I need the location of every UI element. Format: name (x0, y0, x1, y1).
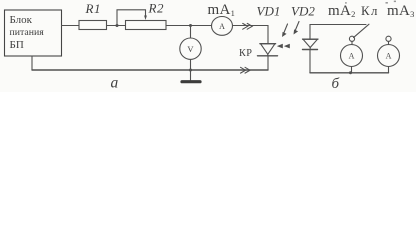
wire return bottom of circuit a (32, 69, 268, 71)
voltmeter V (180, 26, 201, 71)
svg-text:питания: питания (10, 27, 45, 38)
svg-text:VD2: VD2 (291, 3, 315, 18)
wire mA2 bottom lead (351, 67, 353, 73)
node junction R1-R2 tap (116, 24, 119, 27)
svg-text:б: б (332, 76, 340, 92)
switch contact mA3 (386, 36, 391, 41)
svg-text:mA2: mA2 (328, 3, 356, 19)
wire bottom of circuit b (310, 72, 389, 74)
ammeter mA1 (212, 17, 233, 36)
light arrows horizontal into VD1 (277, 44, 290, 49)
wire R2 to mA1 (166, 25, 212, 27)
switch Кл lever (354, 24, 370, 37)
wire VD1 bottom lead (267, 56, 269, 70)
wire БП bottom lead (31, 56, 33, 70)
svg-text:R1: R1 (85, 1, 102, 16)
connector chevrons top (243, 23, 253, 29)
wire VD2 top rail (310, 25, 366, 40)
LED VD1 (258, 44, 278, 56)
svg-text:КР: КР (239, 48, 252, 59)
switch contact mA2 (349, 36, 354, 41)
svg-text:A: A (219, 22, 225, 31)
node junction mA2 bottom (349, 71, 352, 74)
power supply БП (5, 10, 62, 56)
wire contact to mA2 (351, 41, 353, 44)
wire mA1 to VD1 corner (233, 26, 269, 44)
wire contact to mA3 (388, 41, 390, 44)
resistor R2 (126, 21, 167, 30)
scan specks (345, 1, 396, 4)
wire mA3 bottom lead (388, 67, 390, 73)
wire rheostat tap (117, 10, 146, 26)
svg-text:БП: БП (10, 39, 24, 51)
svg-text:A: A (386, 52, 392, 61)
light arrows diagonal (282, 22, 299, 38)
node junction voltmeter top (189, 24, 192, 27)
svg-text:Блок: Блок (10, 14, 33, 26)
photodiode VD2 (303, 39, 318, 49)
svg-text:A: A (349, 52, 355, 61)
connector chevrons bottom (241, 67, 251, 73)
ammeter mA3 (378, 45, 400, 67)
svg-text:Кл: Кл (361, 4, 379, 18)
wire VD2 bottom lead (309, 50, 311, 73)
node junction ground (189, 69, 192, 72)
ammeter mA2 (341, 45, 363, 67)
wire БП to R1 (62, 25, 80, 27)
svg-text:mA1: mA1 (208, 2, 236, 18)
svg-text:VD1: VD1 (257, 3, 281, 18)
svg-text:mA3: mA3 (387, 3, 415, 19)
ground (182, 70, 200, 82)
svg-text:R2: R2 (148, 1, 165, 16)
resistor R1 (79, 21, 107, 30)
svg-text:V: V (187, 44, 194, 54)
wire R1 to R2 (107, 25, 126, 27)
svg-text:а: а (111, 75, 119, 92)
